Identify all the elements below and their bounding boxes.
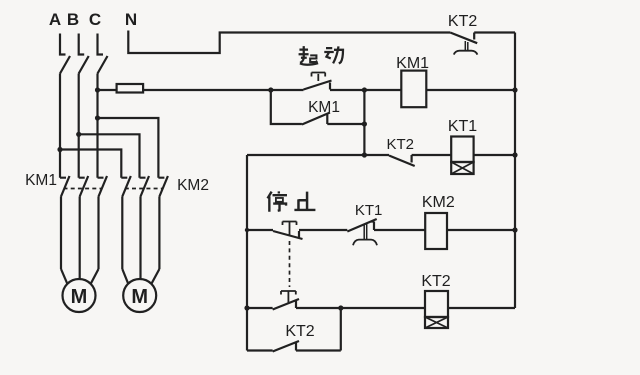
- svg-text:KT1: KT1: [355, 202, 383, 219]
- contactor KM1 main contact 2: [79, 176, 89, 269]
- svg-text:M: M: [131, 286, 148, 308]
- contactor KM1 main contact 1: [60, 176, 70, 269]
- wire stop to KT1 contact: [299, 229, 347, 231]
- disconnect switch pole B: [79, 34, 89, 74]
- svg-text:KT1: KT1: [448, 118, 477, 135]
- svg-text:KM2: KM2: [177, 177, 209, 194]
- wire KT2 coil row left: [247, 307, 273, 309]
- wire left bus: [246, 155, 248, 351]
- svg-text:N: N: [125, 10, 137, 29]
- node dot A-branch: [57, 147, 62, 152]
- svg-text:KM2: KM2: [422, 194, 455, 211]
- wire fuse to start: [143, 89, 303, 91]
- coil KT1 with X box: [451, 137, 473, 175]
- node dot bus-KT1: [512, 152, 517, 157]
- wire KM2 row left: [247, 229, 273, 231]
- wire latch row right: [296, 349, 341, 351]
- wire KT1 contact to KM2 coil: [374, 229, 425, 231]
- wire motor2 left lead: [122, 269, 128, 284]
- stop button NC: [273, 222, 303, 240]
- wire motor2 mid lead: [139, 269, 141, 279]
- disconnect switch pole A: [60, 34, 70, 74]
- wire KT2 top to bus: [474, 31, 515, 33]
- node C label: [89, 10, 101, 29]
- svg-text:A: A: [49, 10, 61, 29]
- motor M1: [63, 279, 96, 312]
- coil KT2 with X box: [425, 291, 448, 328]
- node dot start-right: [362, 87, 367, 92]
- KM2 linkage dashed: [125, 188, 163, 190]
- wire KM2 coil to bus: [447, 229, 515, 231]
- wire KT1 row left: [247, 154, 389, 156]
- node dot B-branch: [76, 132, 81, 137]
- contact KT2 latch NO: [273, 341, 299, 352]
- label KT2 latch: [285, 323, 314, 340]
- node dot left bus KM2 row: [245, 228, 249, 232]
- time relay contact KT2 top (delayed NC): [450, 33, 477, 55]
- svg-text:KM1: KM1: [396, 55, 429, 72]
- label KT1 delayed: [355, 202, 383, 219]
- label qidong (start) glyphs: [299, 46, 319, 65]
- node A label: [49, 10, 61, 29]
- wire motor1 left lead: [61, 269, 68, 284]
- wire KM1 coil to bus: [426, 89, 515, 91]
- node N label: [125, 10, 137, 29]
- contactor KM1 main contact 3: [98, 176, 108, 269]
- label KT2 mid: [386, 136, 414, 153]
- motor M2: [123, 279, 156, 312]
- wire branch B to KM2: [79, 134, 140, 177]
- node dot KT1 row: [362, 152, 367, 157]
- label KT2 top: [448, 13, 477, 30]
- disconnect switch pole C: [98, 34, 108, 74]
- label KM1 aux: [308, 99, 340, 116]
- label KM1 left: [25, 172, 57, 189]
- wire branch A to KM2: [60, 150, 121, 178]
- svg-text:KT2: KT2: [386, 136, 414, 153]
- contact KT1 delayed NO: [347, 219, 377, 245]
- wire branch C to KM2: [98, 118, 159, 178]
- label KM2 right: [177, 177, 209, 194]
- node dot aux-right: [362, 121, 367, 126]
- wire right bus: [514, 33, 516, 309]
- label KM2 coil: [422, 194, 455, 211]
- label tingzhi (stop) glyphs: [268, 191, 287, 211]
- svg-text:KT2: KT2: [448, 13, 477, 30]
- wire motor2 right lead: [151, 269, 159, 284]
- KM1 linkage dashed: [64, 188, 102, 190]
- svg-text:KT2: KT2: [285, 323, 314, 340]
- wire start to dot: [330, 89, 401, 91]
- wire motor1 right lead: [91, 269, 99, 284]
- wire fuse row left: [98, 89, 117, 91]
- wire KM1 aux right: [327, 123, 364, 125]
- fuse FU: [117, 84, 144, 93]
- node dot C-branch: [95, 115, 100, 120]
- coil KM2: [425, 213, 447, 249]
- wire phase C vertical: [96, 74, 98, 178]
- svg-text:M: M: [71, 286, 88, 308]
- wire stop NO to KT2 coil: [296, 307, 425, 309]
- wire vertical 364: [363, 90, 365, 155]
- node dot bus-KM2: [512, 227, 517, 232]
- wire KM1 aux branch: [271, 90, 302, 124]
- stop button linkage dashed: [289, 241, 291, 287]
- contactor KM2 main contact 2: [140, 176, 150, 269]
- wire KT1 coil to bus: [474, 154, 515, 156]
- wire phase B vertical: [78, 74, 80, 178]
- label KT1 coil: [448, 118, 477, 135]
- wire KT2 coil to bus: [448, 307, 515, 309]
- contactor KM2 main contact 3: [158, 176, 168, 269]
- coil KM1: [401, 71, 426, 108]
- node dot latch: [338, 305, 343, 310]
- label KM1 coil: [396, 55, 429, 72]
- contact KM1 aux (NO): [302, 113, 330, 125]
- node dot C-fuse: [95, 87, 100, 92]
- stop button NO contact: [273, 291, 299, 310]
- node dot start-left: [268, 87, 273, 92]
- label KT2 coil: [421, 273, 450, 290]
- svg-text:B: B: [67, 10, 79, 29]
- wire latch vertical: [340, 308, 342, 351]
- wire latch row left: [247, 349, 273, 351]
- node B label: [67, 10, 79, 29]
- node dot left bus KT2 row: [244, 305, 249, 310]
- start button SB (NO): [304, 73, 332, 90]
- svg-text:KM1: KM1: [308, 99, 340, 116]
- svg-text:C: C: [89, 10, 101, 29]
- wire phase A vertical: [59, 74, 61, 178]
- wire N step: [128, 31, 450, 54]
- wire KT2 NC to coil: [412, 154, 452, 156]
- contact KT2 NC instantaneous: [389, 155, 415, 166]
- svg-text:KT2: KT2: [421, 273, 450, 290]
- contactor KM2 main contact 1: [121, 176, 131, 269]
- node dot bus-KM1: [512, 87, 517, 92]
- svg-text:KM1: KM1: [25, 172, 57, 189]
- wire motor1 mid lead: [79, 269, 81, 279]
